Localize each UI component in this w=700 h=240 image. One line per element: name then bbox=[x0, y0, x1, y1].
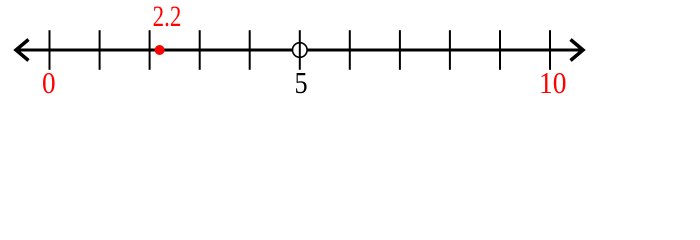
svg-text:5: 5 bbox=[294, 66, 307, 100]
tick 0 bbox=[49, 30, 51, 70]
tick 2 bbox=[149, 30, 151, 70]
tick 3 bbox=[199, 30, 201, 70]
open circle at 5 bbox=[293, 43, 308, 58]
tick 6 bbox=[349, 30, 351, 70]
tick 9 bbox=[499, 30, 501, 70]
svg-text:2.2: 2.2 bbox=[153, 0, 182, 33]
tick 5 bbox=[299, 30, 301, 70]
tick 10 bbox=[549, 30, 551, 70]
tick 7 bbox=[399, 30, 401, 70]
tick 1 bbox=[99, 30, 101, 70]
number line bbox=[16, 49, 583, 52]
tick 8 bbox=[449, 30, 451, 70]
svg-text:10: 10 bbox=[539, 66, 567, 100]
left arrowhead bbox=[16, 40, 29, 61]
right arrowhead bbox=[571, 40, 584, 61]
svg-text:0: 0 bbox=[42, 66, 56, 100]
tick 4 bbox=[249, 30, 251, 70]
red point at 2.2 bbox=[155, 45, 165, 55]
